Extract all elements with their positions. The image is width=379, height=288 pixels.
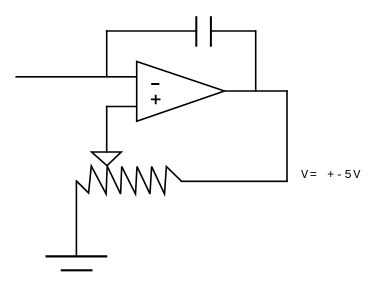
wire: noninverting input horizontal (107, 106, 137, 108)
wire: bottom horizontal to resistor (182, 180, 288, 182)
wire: top horizontal to capacitor left (107, 30, 197, 32)
wire: feedback left vertical (106, 31, 108, 77)
node V output label (301, 168, 362, 182)
op-amp minus label (152, 83, 158, 85)
capacitor C1 right plate (210, 16, 212, 47)
op-amp U1 triangle (137, 62, 225, 122)
wire: input to inverting input (16, 76, 137, 78)
wire: vertical down to potentiometer wiper (106, 107, 108, 153)
wire: feedback right vertical down to output (255, 31, 257, 91)
wire: resistor left lead down to ground (75, 181, 77, 256)
ground bar long (46, 255, 108, 257)
wire: op-amp output (225, 90, 288, 92)
capacitor C1 left plate (195, 16, 197, 47)
wire: right vertical down (286, 91, 288, 181)
ground bar short (61, 269, 93, 271)
potentiometer wiper arrow (92, 152, 122, 166)
op-amp plus label (152, 96, 160, 104)
resistor R1 sawtooth (76, 166, 181, 194)
wire: capacitor right to feedback corner (211, 30, 256, 32)
